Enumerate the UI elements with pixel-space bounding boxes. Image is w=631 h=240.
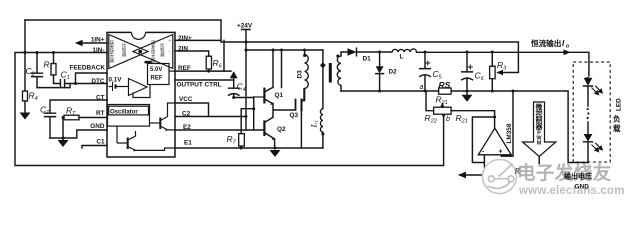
svg-text:1IN-: 1IN-	[92, 47, 104, 54]
svg-text:D3: D3	[297, 70, 304, 79]
svg-text:恒流输出: 恒流输出	[531, 38, 561, 48]
svg-text:GND: GND	[90, 123, 105, 130]
svg-text:Q3: Q3	[290, 112, 299, 119]
svg-text:D1: D1	[363, 56, 372, 63]
svg-text:2IN: 2IN	[178, 45, 188, 52]
svg-text:LM358: LM358	[506, 123, 513, 143]
svg-text:Q2: Q2	[277, 126, 286, 133]
svg-text:LED: LED	[616, 98, 623, 111]
svg-text:RT: RT	[96, 110, 105, 117]
svg-text:VCC: VCC	[179, 96, 193, 103]
svg-text:E1: E1	[184, 140, 192, 147]
svg-text:FEEDBACK: FEEDBACK	[69, 65, 105, 72]
svg-text:OUTPUT CTRL: OUTPUT CTRL	[177, 82, 222, 89]
svg-text:E2: E2	[183, 124, 191, 131]
svg-text:0.1V: 0.1V	[109, 77, 123, 84]
svg-text:o: o	[566, 44, 569, 50]
svg-text:C2: C2	[182, 111, 191, 118]
svg-text:载: 载	[613, 123, 621, 133]
svg-text:Q1: Q1	[275, 92, 284, 99]
svg-text:GND: GND	[575, 184, 590, 191]
svg-text:1IN+: 1IN+	[91, 37, 105, 44]
svg-text:R: R	[514, 166, 521, 176]
svg-text:b: b	[446, 116, 450, 123]
svg-text:L: L	[400, 54, 404, 61]
svg-text:DTC: DTC	[91, 78, 105, 85]
svg-text:M: M	[537, 141, 542, 147]
svg-text:+: +	[169, 38, 172, 43]
svg-text:输出电压: 输出电压	[564, 172, 592, 181]
svg-text:www.elecfans.com: www.elecfans.com	[518, 185, 625, 197]
svg-text:+24V: +24V	[237, 23, 253, 30]
svg-text:RS: RS	[439, 80, 451, 90]
svg-text:5.0V: 5.0V	[150, 67, 162, 73]
svg-text:D2: D2	[389, 69, 398, 76]
svg-text:+: +	[499, 149, 503, 156]
svg-text:2IN+: 2IN+	[178, 35, 192, 42]
svg-text:REF: REF	[151, 76, 163, 82]
svg-text:a: a	[420, 84, 424, 91]
svg-text:REF: REF	[178, 65, 191, 72]
svg-text:Oscillator: Oscillator	[110, 110, 138, 116]
svg-text:C1: C1	[96, 139, 105, 146]
svg-text:CT: CT	[96, 94, 105, 101]
svg-text:负: 负	[613, 114, 621, 124]
